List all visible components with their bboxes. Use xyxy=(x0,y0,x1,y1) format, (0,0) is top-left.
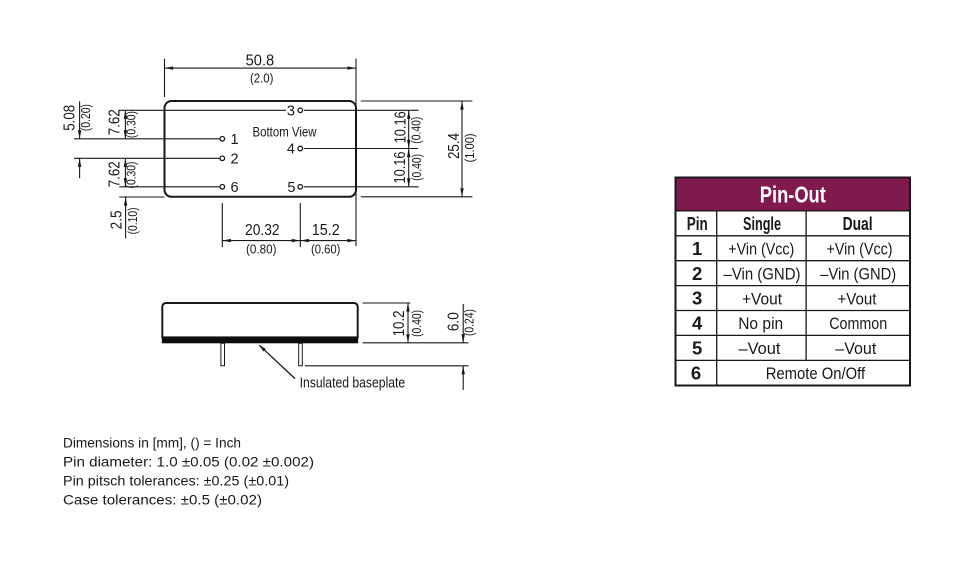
side view pin right xyxy=(299,343,303,366)
svg-text:10.16: 10.16 xyxy=(392,111,409,143)
svg-text:No pin: No pin xyxy=(738,314,783,333)
side view body xyxy=(162,303,357,337)
svg-text:2: 2 xyxy=(231,152,239,168)
wire pin5 row extension xyxy=(304,186,419,188)
svg-text:(0.30): (0.30) xyxy=(124,111,139,138)
svg-text:–Vin (GND): –Vin (GND) xyxy=(724,264,801,283)
svg-text:2: 2 xyxy=(692,263,702,284)
svg-text:Bottom View: Bottom View xyxy=(253,125,317,140)
dimension 10.16 (0.40) pin4-pin5 xyxy=(392,149,424,187)
svg-text:Single: Single xyxy=(743,213,781,234)
dimension 10.16 (0.40) pin3-pin4 xyxy=(392,110,423,148)
wire pin6 row extension xyxy=(119,186,220,188)
svg-text:+Vin (Vcc): +Vin (Vcc) xyxy=(827,240,893,259)
pin 4 xyxy=(298,146,303,151)
svg-text:(0.20): (0.20) xyxy=(78,104,93,131)
svg-text:50.8: 50.8 xyxy=(246,52,275,69)
svg-text:Insulated baseplate: Insulated baseplate xyxy=(300,376,406,392)
dimension 20.32 (0.80) and 15.2 (0.60) bottom xyxy=(222,203,356,257)
pin 5 xyxy=(298,185,303,190)
side view insulated baseplate bar xyxy=(162,337,358,343)
svg-text:(0.40): (0.40) xyxy=(409,310,424,337)
pin-out table header band xyxy=(676,178,911,211)
svg-text:1: 1 xyxy=(231,132,239,148)
dimension 50.8 (2.0) top width xyxy=(165,52,357,246)
pin 3 xyxy=(298,108,303,113)
svg-text:5: 5 xyxy=(692,338,702,359)
svg-text:Pin-Out: Pin-Out xyxy=(760,182,826,208)
dimension 6.0 (0.24) pin length xyxy=(305,304,477,390)
svg-text:Common: Common xyxy=(829,314,887,333)
wire body bottom-left extension xyxy=(119,196,164,198)
side view pin left xyxy=(221,343,225,366)
svg-text:(0.80): (0.80) xyxy=(246,242,277,257)
svg-text:15.2: 15.2 xyxy=(312,222,340,239)
svg-text:1: 1 xyxy=(692,238,702,259)
svg-text:4: 4 xyxy=(287,142,295,158)
dimension 7.62 (0.30) pin3-pin1 xyxy=(106,109,138,139)
svg-text:(0.40): (0.40) xyxy=(409,117,424,144)
svg-text:3: 3 xyxy=(287,103,295,119)
top view package body xyxy=(165,101,357,197)
wire pin3 row extension xyxy=(119,109,286,111)
leader insulated baseplate xyxy=(257,343,405,391)
svg-text:4: 4 xyxy=(692,313,703,334)
wire pin2 row extension xyxy=(74,157,220,159)
svg-text:6.0: 6.0 xyxy=(446,312,463,331)
svg-text:25.4: 25.4 xyxy=(446,133,463,159)
dimension 25.4 (1.00) height xyxy=(361,101,477,197)
pin 1 xyxy=(220,137,225,142)
svg-text:(0.40): (0.40) xyxy=(409,154,424,181)
svg-text:+Vout: +Vout xyxy=(742,289,782,308)
svg-text:20.32: 20.32 xyxy=(245,222,280,239)
svg-text:5.08: 5.08 xyxy=(62,105,79,131)
dimension 10.2 (0.40) case height xyxy=(363,303,469,343)
svg-text:(0.30): (0.30) xyxy=(124,162,139,189)
svg-text:Dual: Dual xyxy=(843,213,873,234)
dimension 5.08 (0.20) pin1-pin2 xyxy=(62,101,94,178)
svg-text:(0.24): (0.24) xyxy=(462,309,477,336)
svg-text:6: 6 xyxy=(231,180,239,196)
svg-text:(0.10): (0.10) xyxy=(125,207,140,234)
svg-text:–Vout: –Vout xyxy=(835,339,876,358)
svg-text:7.62: 7.62 xyxy=(106,109,123,135)
svg-text:(2.0): (2.0) xyxy=(250,70,274,85)
svg-text:Remote On/Off: Remote On/Off xyxy=(766,364,866,383)
svg-text:+Vin (Vcc): +Vin (Vcc) xyxy=(728,240,794,259)
svg-text:Case tolerances: ±0.5 (±0.02): Case tolerances: ±0.5 (±0.02) xyxy=(63,491,262,507)
svg-text:(1.00): (1.00) xyxy=(462,133,477,162)
svg-text:3: 3 xyxy=(692,288,702,309)
svg-text:Pin pitsch tolerances: ±0.25 (: Pin pitsch tolerances: ±0.25 (±0.01) xyxy=(63,473,289,489)
pin 6 xyxy=(220,185,225,190)
pin-out table grid xyxy=(676,178,911,386)
wire pin1 row extension xyxy=(74,138,220,140)
svg-text:Pin: Pin xyxy=(687,213,708,234)
svg-text:Dimensions in [mm], () = Inch: Dimensions in [mm], () = Inch xyxy=(63,435,241,451)
svg-text:7.62: 7.62 xyxy=(106,161,123,187)
svg-text:–Vin (GND): –Vin (GND) xyxy=(820,264,896,283)
dimension 7.62 (0.30) pin2-pin6 xyxy=(106,158,138,188)
svg-text:2.5: 2.5 xyxy=(108,210,125,229)
table header row xyxy=(687,213,873,234)
svg-text:(0.60): (0.60) xyxy=(311,242,341,257)
svg-text:Pin diameter: 1.0 ±0.05 (0.02: Pin diameter: 1.0 ±0.05 (0.02 ±0.002) xyxy=(63,454,314,470)
wire pin4 row extension xyxy=(304,148,418,150)
svg-text:10.16: 10.16 xyxy=(392,151,409,183)
svg-text:–Vout: –Vout xyxy=(739,339,781,358)
svg-text:+Vout: +Vout xyxy=(838,289,877,308)
svg-text:5: 5 xyxy=(287,180,295,196)
svg-text:6: 6 xyxy=(691,363,701,384)
pin 2 xyxy=(220,156,225,161)
dimension 2.5 (0.10) pin6-bottom xyxy=(108,197,140,238)
svg-text:10.2: 10.2 xyxy=(391,310,408,336)
